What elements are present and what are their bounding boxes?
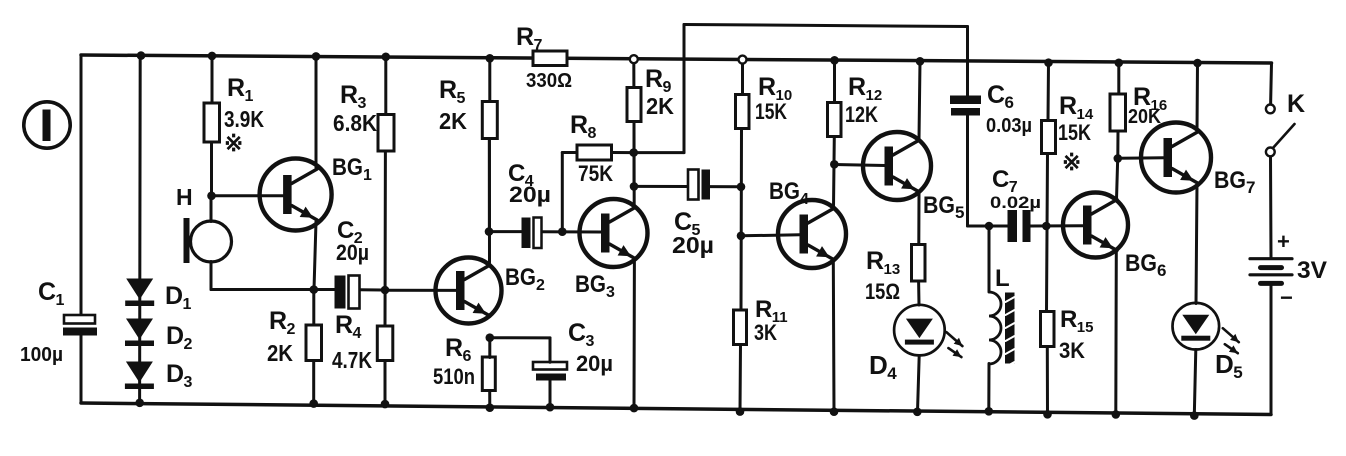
- junction top rail 6: [830, 56, 839, 65]
- svg-text:1: 1: [363, 167, 372, 184]
- junction top rail 10: [1193, 59, 1202, 68]
- svg-text:R: R: [227, 74, 245, 102]
- wire feedback jumper horizontal low: [634, 151, 684, 154]
- node R3 R4 C2 base BG2: [381, 286, 390, 295]
- label C3: [568, 319, 595, 350]
- node BG4 base: [737, 232, 746, 241]
- label R9 value 2K: [646, 93, 674, 119]
- label R3: [340, 81, 367, 112]
- svg-text:R: R: [570, 111, 588, 139]
- wire mic bottom lead: [210, 262, 213, 290]
- label R13: [866, 247, 900, 278]
- transistor BG2: [436, 258, 502, 324]
- label R10 value 15K: [755, 99, 787, 124]
- svg-text:C: C: [987, 81, 1005, 109]
- junction bottom rail 4: [486, 403, 495, 412]
- resistor R3: [378, 115, 394, 152]
- wire BG4 emitter drop: [832, 260, 836, 412]
- wire diode chain line: [138, 56, 142, 403]
- svg-text:2K: 2K: [439, 108, 467, 134]
- svg-text:2K: 2K: [646, 93, 674, 119]
- label C5 value 20µ: [672, 232, 714, 258]
- wire bottom ground rail: [81, 403, 1271, 415]
- svg-text:D: D: [1215, 349, 1234, 379]
- diode D1: [125, 279, 154, 307]
- svg-text:R: R: [335, 311, 353, 339]
- label C1 value 100µ: [20, 344, 63, 366]
- wire R6 bottom lead: [488, 391, 491, 408]
- node R10 top (open): [739, 56, 747, 64]
- junction top rail 7: [916, 57, 925, 66]
- svg-text:D: D: [166, 322, 184, 350]
- junction bottom rail 8: [830, 407, 839, 416]
- wire BG5 collector riser: [919, 61, 920, 139]
- wire R15 bottom lead: [1046, 346, 1049, 414]
- svg-text:R: R: [445, 334, 463, 362]
- wire feedback jumper right drop to C6: [966, 27, 969, 97]
- svg-text:5: 5: [955, 203, 964, 222]
- wire C3 top drop: [549, 338, 552, 362]
- label C7 value 0.02µ: [990, 193, 1041, 212]
- svg-text:L: L: [995, 265, 1010, 292]
- svg-text:3K: 3K: [1059, 338, 1085, 363]
- svg-text:5: 5: [457, 90, 466, 107]
- junction bottom rail 12: [1112, 410, 1121, 419]
- transistor BG7: [1141, 123, 1211, 193]
- node R12 BG5 base: [830, 160, 839, 169]
- svg-text:BG: BG: [1125, 250, 1157, 277]
- microphone H: [184, 218, 232, 263]
- capacitor C3: [533, 362, 567, 381]
- svg-text:D: D: [869, 350, 888, 380]
- resistor R2: [306, 325, 322, 361]
- junction bottom rail 1: [135, 399, 144, 408]
- wire R8 drop: [561, 153, 564, 232]
- wire R3 top lead: [384, 57, 387, 115]
- svg-text:R: R: [516, 23, 534, 51]
- label R1 select mark: [224, 130, 243, 156]
- svg-text:0.02µ: 0.02µ: [990, 193, 1041, 212]
- wire left edge lower: [80, 335, 83, 403]
- wire C2 to R4 node: [360, 288, 386, 291]
- wire R10 top lead: [741, 60, 744, 95]
- wire BG3 emitter drop: [633, 260, 636, 409]
- svg-text:20µ: 20µ: [672, 232, 714, 258]
- svg-text:BG: BG: [923, 192, 955, 219]
- label C4: [508, 160, 534, 190]
- svg-text:3: 3: [184, 374, 193, 391]
- wire R6 top lead: [488, 338, 491, 358]
- transistor BG5: [863, 132, 931, 200]
- svg-text:7: 7: [534, 37, 543, 54]
- label R14 select mark: [1062, 149, 1081, 175]
- svg-text:H: H: [176, 184, 193, 210]
- label R2 value 2K: [267, 340, 293, 366]
- wire R4 bottom lead: [384, 361, 387, 405]
- wire R8 left lead: [562, 151, 577, 154]
- svg-text:3V: 3V: [1297, 257, 1327, 284]
- svg-text:15K: 15K: [755, 99, 787, 124]
- switch K lever: [1273, 124, 1295, 149]
- svg-text:20µ: 20µ: [509, 182, 551, 207]
- svg-text:C: C: [38, 278, 56, 306]
- junction top rail 1: [137, 51, 146, 60]
- wire BG1 base: [212, 194, 284, 197]
- label D2: [166, 322, 193, 353]
- label L: [995, 265, 1010, 292]
- wire R10-R11 mid line: [740, 129, 744, 311]
- node L top: [985, 222, 994, 231]
- svg-text:20µ: 20µ: [336, 240, 369, 265]
- svg-text:D: D: [165, 282, 183, 310]
- svg-text:15: 15: [1077, 319, 1094, 336]
- label R4 value 4.7K: [332, 347, 372, 373]
- svg-text:BG: BG: [575, 271, 606, 298]
- resistor R8: [577, 145, 612, 160]
- wire BG4 base: [741, 235, 800, 236]
- svg-text:+: +: [1277, 229, 1290, 254]
- resistor R9: [627, 88, 641, 122]
- capacitor C7: [1008, 210, 1031, 242]
- svg-text:15Ω: 15Ω: [865, 279, 900, 304]
- node R9 top (open): [630, 55, 638, 63]
- label battery plus: [1277, 229, 1290, 254]
- label R12 value 12K: [845, 102, 878, 127]
- switch K top contact: [1266, 105, 1275, 114]
- resistor R12: [828, 103, 842, 137]
- label R2: [269, 307, 296, 338]
- svg-text:3: 3: [586, 333, 595, 350]
- node R14 R15 C7: [1042, 222, 1051, 231]
- battery 3V: [1250, 259, 1292, 284]
- node H base: [207, 192, 216, 201]
- label BG2: [505, 264, 545, 294]
- svg-text:6: 6: [463, 348, 472, 365]
- svg-text:R: R: [1059, 92, 1077, 120]
- label R14: [1059, 92, 1094, 123]
- label R5: [439, 76, 466, 107]
- label C7: [992, 166, 1018, 196]
- svg-text:R: R: [340, 81, 358, 109]
- label R10: [758, 73, 792, 104]
- wire C5 left lead: [634, 185, 689, 188]
- wire R16 top lead: [1117, 63, 1120, 94]
- svg-text:R: R: [439, 76, 457, 104]
- svg-text:BG: BG: [769, 178, 800, 205]
- wire battery to rail: [1270, 286, 1273, 415]
- label R11: [755, 296, 788, 326]
- svg-text:※: ※: [224, 130, 243, 156]
- capacitor C5: [688, 170, 710, 200]
- label R7: [516, 23, 543, 54]
- svg-text:3.9K: 3.9K: [224, 106, 264, 132]
- wire D4 to rail: [918, 356, 920, 412]
- label C6 value 0.03µ: [986, 115, 1032, 137]
- switch K bottom contact: [1266, 148, 1275, 157]
- svg-text:※: ※: [1062, 149, 1081, 175]
- svg-text:2: 2: [536, 277, 545, 294]
- capacitor C6: [950, 96, 981, 116]
- wire C7 to BG6 base: [1031, 224, 1084, 227]
- svg-text:6: 6: [1157, 261, 1166, 280]
- resistor R4: [377, 326, 393, 361]
- svg-text:BG: BG: [332, 154, 363, 181]
- svg-text:R: R: [758, 73, 776, 101]
- label BG5: [923, 192, 964, 222]
- wire R9 top lead: [632, 59, 635, 87]
- wire left edge upper: [80, 55, 83, 316]
- svg-text:BG: BG: [505, 264, 536, 291]
- label R8: [570, 111, 597, 142]
- svg-text:15K: 15K: [1058, 120, 1091, 145]
- node BG3 collector C5: [630, 182, 639, 191]
- svg-text:4: 4: [887, 364, 897, 383]
- label C5: [674, 208, 701, 239]
- wire R1 branch lower: [210, 142, 213, 196]
- wire BG3 collector riser: [633, 123, 636, 207]
- svg-text:75K: 75K: [578, 161, 613, 186]
- resistor R16: [1110, 94, 1126, 131]
- label R16 value 20K: [1128, 106, 1161, 128]
- wire BG4 collector riser: [832, 137, 836, 208]
- svg-text:1: 1: [56, 292, 65, 309]
- label BG3: [575, 271, 615, 301]
- resistor R15: [1041, 312, 1055, 347]
- label R5 value 2K: [439, 108, 467, 134]
- node feedback R8 R9: [629, 148, 638, 157]
- svg-text:R: R: [1060, 306, 1077, 333]
- wire R5 top lead: [488, 58, 491, 101]
- label K: [1287, 90, 1305, 118]
- wire R8 right lead: [612, 151, 634, 154]
- svg-text:BG: BG: [1214, 167, 1246, 194]
- svg-text:R: R: [645, 65, 663, 93]
- junction bottom rail 10: [985, 407, 994, 416]
- figure mark circled 1: [24, 102, 70, 148]
- label R1 value 3.9K: [224, 106, 264, 132]
- svg-text:5: 5: [1233, 363, 1242, 382]
- wire BG1 emitter drop: [314, 222, 316, 290]
- resistor R6: [482, 357, 495, 391]
- label H: [176, 184, 193, 210]
- svg-text:C: C: [992, 166, 1009, 193]
- label C2: [337, 217, 363, 247]
- wire C6 bottom drop: [966, 116, 969, 227]
- label R13 value 15Ω: [865, 279, 900, 304]
- label R8 value 75K: [578, 161, 613, 186]
- junction bottom rail 2: [309, 399, 318, 408]
- inductor L coil: [989, 292, 1001, 364]
- wire R14-R15 mid line: [1047, 153, 1048, 312]
- wire R9 bottom segment: [633, 123, 636, 186]
- wire right edge to switch: [1269, 63, 1273, 105]
- wire R13 to D4: [917, 281, 920, 305]
- node C5 right R10: [737, 183, 746, 192]
- svg-text:330Ω: 330Ω: [526, 70, 572, 92]
- label battery 3V: [1297, 257, 1327, 284]
- label D1: [165, 282, 192, 313]
- label R7 value 330Ω: [526, 70, 572, 92]
- wire R14 top lead: [1047, 63, 1051, 121]
- wire D5 to rail: [1194, 350, 1196, 416]
- wire BG5 base: [834, 165, 885, 166]
- capacitor C1: [63, 315, 97, 336]
- label R14 value 15K: [1058, 120, 1091, 145]
- label D4: [869, 350, 897, 383]
- transistor BG6: [1063, 193, 1128, 258]
- wire BG2 base: [385, 289, 457, 292]
- label C2 value 20µ: [336, 240, 369, 265]
- wire R16 bottom lead: [1116, 131, 1119, 158]
- svg-text:100µ: 100µ: [20, 344, 63, 366]
- LED D5: [1173, 303, 1239, 353]
- wire R11 bottom lead: [739, 345, 743, 412]
- wire feedback jumper left riser: [683, 25, 686, 153]
- node R8 tap: [558, 227, 567, 236]
- svg-text:1: 1: [245, 88, 254, 105]
- svg-text:4.7K: 4.7K: [332, 347, 372, 373]
- wire C4 left lead: [489, 230, 522, 233]
- node C4 left riser: [485, 227, 494, 236]
- junction bottom rail 3: [381, 400, 390, 409]
- wire R12 top lead: [833, 60, 836, 102]
- resistor R10: [736, 95, 750, 129]
- label C1: [38, 278, 65, 309]
- label R15: [1060, 306, 1093, 336]
- wire R3-R4 mid line: [384, 151, 387, 326]
- svg-text:510n: 510n: [433, 364, 475, 389]
- wire top supply rail: [81, 55, 1272, 63]
- junction top rail 5: [486, 54, 495, 63]
- junction bottom rail 7: [736, 407, 745, 416]
- junction top rail 9: [1115, 59, 1124, 68]
- junction bottom rail 13: [1190, 411, 1199, 420]
- label R9: [645, 65, 672, 96]
- label BG6: [1125, 250, 1166, 280]
- label R12: [848, 73, 882, 104]
- transistor BG3: [580, 199, 648, 267]
- node BG2 emitter C3: [486, 333, 495, 342]
- resistor R14: [1042, 121, 1056, 154]
- capacitor C2: [335, 276, 360, 309]
- svg-text:R: R: [866, 247, 884, 275]
- svg-text:3: 3: [606, 284, 615, 301]
- junction top rail 4: [382, 53, 391, 62]
- label R4: [335, 311, 362, 342]
- resistor R5: [482, 102, 497, 139]
- transistor BG1: [260, 159, 332, 231]
- transistor BG4: [778, 200, 846, 268]
- junction top rail 2: [208, 52, 217, 61]
- wire switch to battery: [1269, 156, 1273, 257]
- svg-text:R: R: [848, 73, 866, 101]
- svg-text:1: 1: [183, 296, 192, 313]
- capacitor C4: [522, 218, 542, 249]
- svg-text:6.8K: 6.8K: [333, 110, 377, 136]
- diode D3: [125, 362, 154, 390]
- label R6: [445, 334, 472, 365]
- inductor L core: [1005, 293, 1015, 368]
- wire mic to C2: [211, 288, 335, 291]
- wire BG2 emitter to C3: [490, 336, 550, 339]
- svg-text:C: C: [568, 319, 586, 347]
- svg-text:4: 4: [353, 325, 362, 342]
- svg-text:R: R: [755, 296, 772, 323]
- node BG6 collector BG7 base: [1114, 154, 1123, 163]
- svg-text:4: 4: [800, 191, 809, 208]
- svg-text:2K: 2K: [267, 340, 293, 366]
- wire C3 bottom lead: [549, 381, 552, 408]
- wire node C4 riser segment: [488, 139, 491, 232]
- svg-text:7: 7: [1246, 178, 1255, 197]
- svg-text:0.03µ: 0.03µ: [986, 115, 1032, 137]
- wire L bottom lead: [987, 364, 990, 412]
- wire BG2 collector riser: [488, 139, 491, 263]
- junction top rail 3: [312, 52, 321, 61]
- wire BG1 collector riser: [315, 56, 318, 167]
- label D3: [166, 360, 193, 391]
- diode D2: [125, 319, 154, 347]
- label R3 value 6.8K: [333, 110, 377, 136]
- svg-text:R: R: [269, 307, 287, 335]
- wire BG7 base: [1118, 156, 1164, 160]
- wire R1 branch upper: [211, 56, 214, 103]
- svg-text:12K: 12K: [845, 102, 878, 127]
- label R1: [227, 74, 254, 105]
- svg-text:K: K: [1287, 90, 1305, 118]
- svg-text:2: 2: [287, 321, 296, 338]
- svg-text:6: 6: [1005, 93, 1014, 112]
- svg-text:D: D: [166, 360, 184, 388]
- label BG4: [769, 178, 809, 208]
- wire C4 to BG3 base: [542, 230, 602, 233]
- resistor R13: [912, 245, 926, 282]
- svg-text:8: 8: [588, 125, 597, 142]
- wire C5 right lead: [710, 185, 741, 188]
- resistor R1: [204, 103, 220, 142]
- node BG1 emitter / C2: [310, 285, 319, 294]
- junction top rail 8: [1044, 58, 1053, 67]
- svg-text:20µ: 20µ: [576, 351, 613, 376]
- wire BG6 emitter drop: [1114, 252, 1118, 415]
- label R15 value 3K: [1059, 338, 1085, 363]
- label C4 value 20µ: [509, 182, 551, 207]
- label C6: [987, 81, 1014, 112]
- wire R2 lower: [312, 361, 315, 404]
- svg-text:−: −: [1280, 285, 1293, 310]
- wire BG7 emitter to D5: [1196, 184, 1197, 304]
- wire BG5 emitter to R13: [917, 193, 920, 245]
- junction bottom rail 6: [630, 404, 639, 413]
- label battery minus: [1280, 285, 1293, 310]
- svg-text:2: 2: [184, 336, 193, 353]
- wire feedback jumper top: [684, 25, 968, 27]
- label C3 value 20µ: [576, 351, 613, 376]
- wire R2 upper: [312, 290, 315, 325]
- label D5: [1215, 349, 1243, 382]
- wire C6 node to C7: [968, 225, 1009, 228]
- label R6 value 510n: [433, 364, 475, 389]
- svg-text:3K: 3K: [754, 320, 777, 345]
- junction bottom rail 5: [546, 403, 555, 412]
- svg-text:13: 13: [884, 261, 901, 278]
- wire L top lead: [988, 226, 991, 292]
- junction bottom rail 9: [913, 408, 922, 417]
- wire BG7 collector riser: [1196, 63, 1200, 132]
- label R16: [1133, 83, 1167, 114]
- wire BG6 collector riser: [1117, 158, 1118, 199]
- label R11 value 3K: [754, 320, 777, 345]
